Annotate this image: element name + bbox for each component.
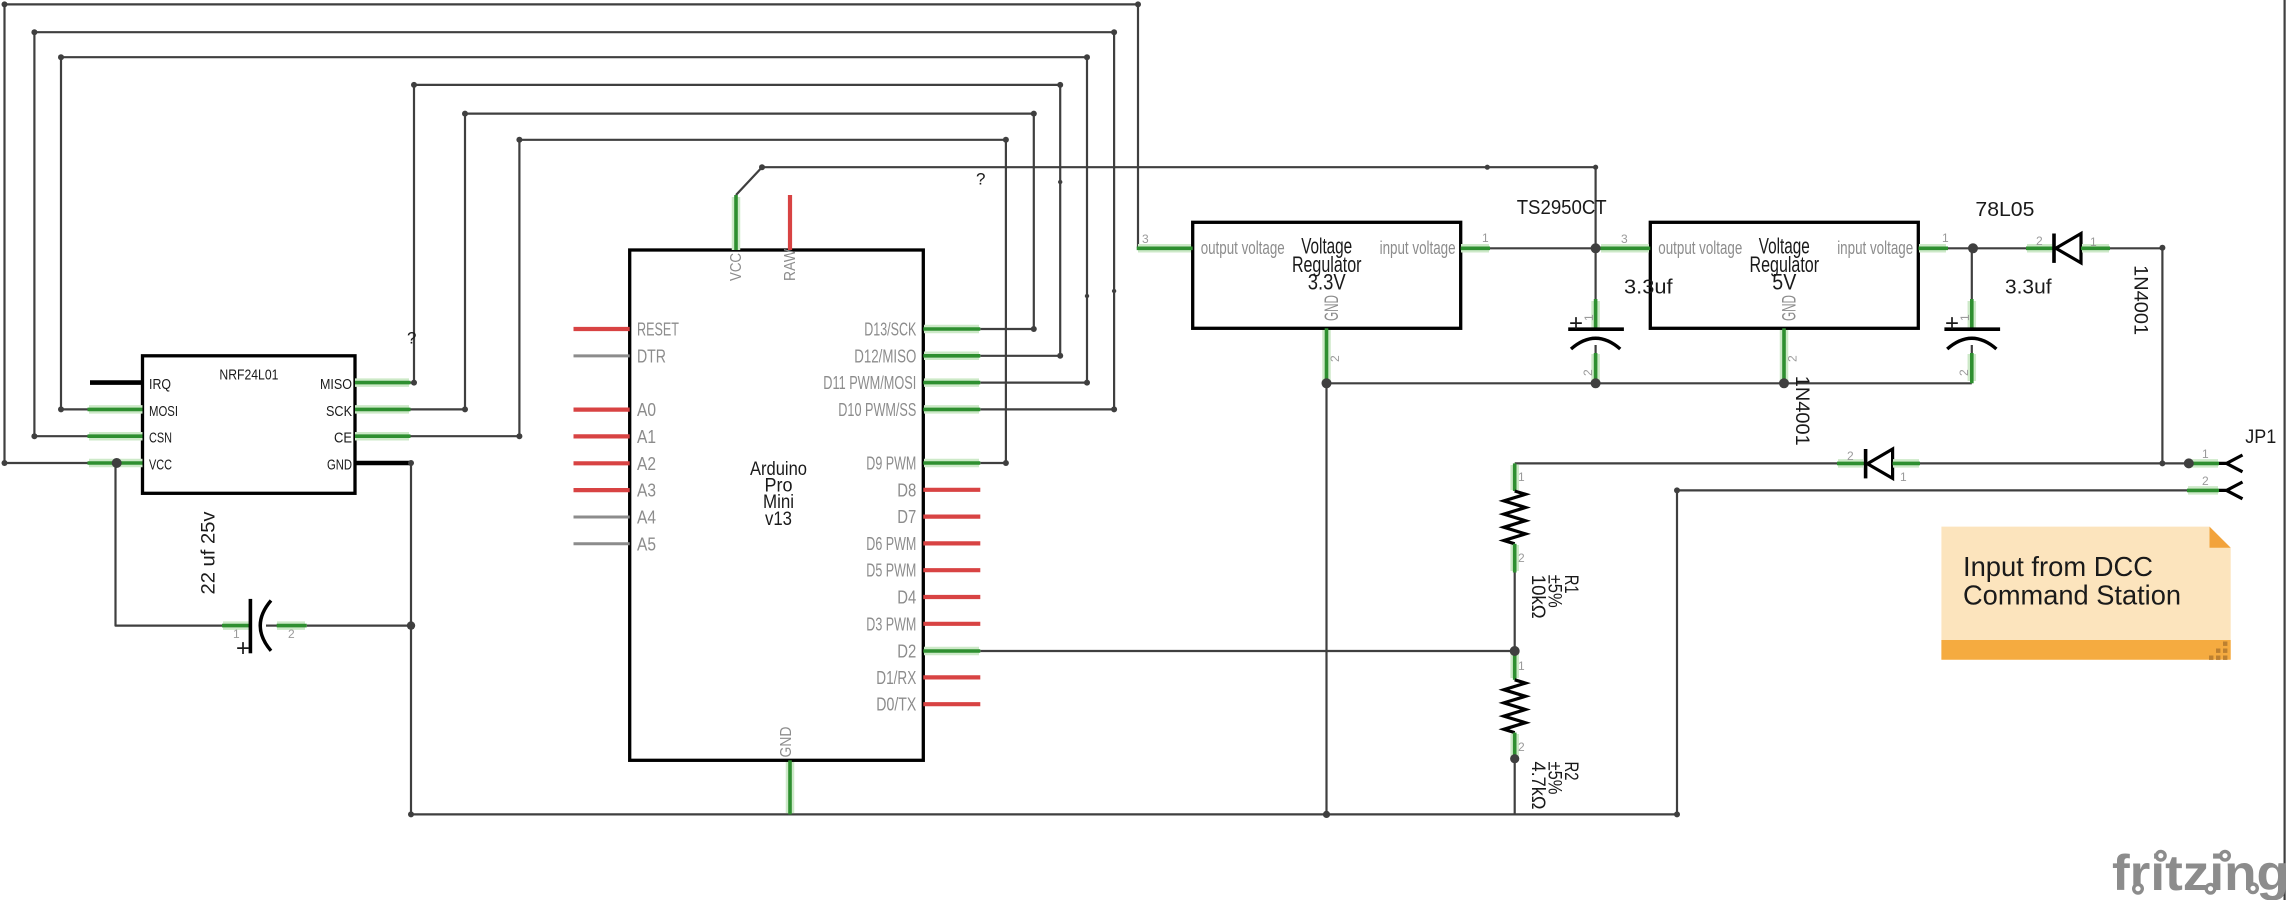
NRF24L01 pin GND (black stub)	[327, 457, 411, 474]
svg-text:1: 1	[233, 627, 240, 641]
svg-text:2: 2	[1328, 355, 1342, 362]
label C1 value 22 uf 25v (rotated)	[198, 511, 220, 594]
svg-text:1: 1	[1482, 231, 1489, 245]
Arduino pin RAW (top, unconnected)	[782, 195, 799, 281]
wire net SCK loop: NRF24L01 SCK to Arduino D13/SCK	[411, 114, 1034, 410]
wire net VCC loop: NRF24L01 VCC to 3.3V regulator output	[5, 4, 1139, 463]
wire net MOSI loop: NRF24L01 MOSI to Arduino D11 PWM/MOSI	[61, 57, 1087, 409]
wire node down to C3	[1971, 248, 1973, 301]
Arduino pin GND (bottom)	[778, 727, 795, 815]
svg-text:D8: D8	[897, 479, 916, 500]
svg-text:Input from DCC: Input from DCC	[1963, 551, 2153, 582]
svg-text:GND: GND	[1780, 295, 1801, 321]
svg-text:2: 2	[288, 627, 295, 641]
svg-text:JP1: JP1	[2245, 426, 2276, 448]
resistor R2 4.7k	[1504, 651, 1526, 759]
wire net CE loop: NRF24L01 CE to Arduino D9 PWM	[411, 140, 1006, 463]
VR1 pin 1 input voltage stub	[1461, 231, 1490, 248]
svg-text:A2: A2	[637, 453, 656, 474]
wire R1 top row to diode D2 and JP1 pin1	[1515, 462, 2189, 464]
diode D2 1N4001 (lower)	[1837, 449, 1920, 484]
junction dot D2/R1/R2 node	[1510, 646, 1520, 656]
svg-text:2: 2	[1847, 449, 1854, 463]
junction dot NRF VCC node	[112, 458, 122, 468]
junction dot GND bus at VR1	[1322, 378, 1332, 388]
svg-text:1: 1	[1518, 659, 1525, 673]
resistor R1 10k	[1504, 463, 1526, 572]
label C3 value 3.3uf	[2005, 277, 2052, 299]
junction dot GND bus at cap C2	[1591, 378, 1601, 388]
svg-text:input voltage: input voltage	[1837, 238, 1913, 258]
Arduino pin D0/TX	[876, 694, 980, 715]
voltage regulator VR2 5V body	[1650, 222, 1918, 328]
svg-text:1: 1	[1582, 314, 1596, 321]
Arduino pin A2	[574, 453, 657, 474]
svg-text:2: 2	[2036, 234, 2043, 248]
Arduino pin D6 PWM	[866, 533, 980, 554]
svg-text:MISO: MISO	[320, 376, 352, 393]
svg-text:D13/SCK: D13/SCK	[864, 319, 916, 340]
svg-text:1: 1	[1958, 314, 1972, 321]
Arduino pin D7	[897, 506, 980, 527]
wire VCC junction down to capacitor C1	[116, 463, 223, 626]
capacitor C1 22uf 25v (horizontal)	[222, 599, 307, 662]
svg-text:?: ?	[407, 329, 416, 348]
svg-text:VCC: VCC	[149, 457, 172, 474]
Arduino Pro Mini U1 body	[630, 250, 924, 760]
svg-text:3.3uf: 3.3uf	[2005, 277, 2052, 299]
svg-text:1N4001: 1N4001	[2129, 265, 2151, 335]
svg-text:v13: v13	[765, 508, 792, 530]
Arduino pin D8	[897, 479, 980, 500]
Arduino pin RESET	[574, 319, 680, 340]
svg-text:D2: D2	[897, 641, 916, 662]
svg-text:2: 2	[1581, 369, 1595, 376]
Arduino pin D1/RX	[876, 667, 980, 688]
svg-text:2: 2	[1518, 740, 1525, 754]
svg-text:A0: A0	[637, 399, 656, 420]
Arduino pin D5 PWM	[866, 560, 980, 581]
NRF24L01 pin MOSI	[88, 403, 179, 420]
Arduino pin D4	[897, 587, 980, 608]
svg-text:output voltage: output voltage	[1658, 238, 1742, 258]
wire node to diode D1 anode	[1973, 247, 2026, 249]
svg-text:1N4001: 1N4001	[1791, 376, 1813, 446]
svg-text:A1: A1	[637, 426, 656, 447]
wire right edge vertical	[2284, 0, 2286, 900]
svg-text:TS2950CT: TS2950CT	[1517, 197, 1607, 219]
svg-text:2: 2	[2202, 474, 2209, 488]
Arduino pin A1	[574, 426, 657, 447]
svg-text:3.3uf: 3.3uf	[1624, 277, 1673, 299]
svg-text:2: 2	[1518, 551, 1525, 565]
wire Arduino D2 to R1/R2 divider	[980, 650, 1514, 652]
label R1 value (rotated): R1 ±5% 10kΩ	[1527, 575, 1582, 619]
wire Arduino VCC to input-voltage node	[736, 167, 1596, 248]
Arduino pin D11 PWM/MOSI	[823, 372, 980, 393]
svg-text:Command Station: Command Station	[1963, 580, 2181, 611]
svg-text:GND: GND	[327, 457, 352, 474]
capacitor C2 3.3uf (left)	[1568, 299, 1624, 383]
svg-text:D9 PWM: D9 PWM	[866, 453, 916, 474]
junction dot JP1 pin1 node	[2184, 458, 2194, 468]
svg-text:MOSI: MOSI	[149, 403, 178, 420]
svg-text:D4: D4	[897, 587, 916, 608]
diode D1 1N4001 (top right)	[2026, 234, 2110, 263]
VR2 pin 2 GND stub	[1784, 328, 1800, 383]
wire diode D1 cathode down to JP1 row	[2110, 248, 2162, 463]
Arduino pin A0	[574, 399, 657, 420]
svg-text:1: 1	[1900, 470, 1907, 484]
junction dot cap C1 to GND wire	[407, 621, 415, 629]
node label ? (MISO wire)	[407, 329, 416, 348]
svg-text:?: ?	[976, 170, 985, 189]
svg-text:D6 PWM: D6 PWM	[866, 533, 916, 554]
label 78L05	[1975, 199, 2034, 221]
svg-text:CE: CE	[334, 430, 352, 447]
NRF24L01 pin CSN	[88, 430, 173, 447]
wire NRF24L01 GND down and bottom ground bus to JP1 pin2	[411, 463, 2188, 814]
VR2 pin 3 output voltage stub	[1600, 232, 1650, 248]
Arduino pin D12/MISO	[854, 345, 980, 366]
sticky note: Input from DCC Command Station	[1941, 527, 2230, 660]
svg-text:3: 3	[1142, 232, 1149, 246]
Arduino pin D9 PWM	[866, 453, 980, 474]
wire GND bus of regulators and caps	[1327, 382, 1972, 384]
svg-text:A5: A5	[637, 533, 656, 554]
junction dot node VR2 input / diode D1	[1968, 243, 1978, 253]
svg-text:2: 2	[1957, 369, 1971, 376]
svg-text:SCK: SCK	[326, 403, 352, 420]
svg-text:78L05: 78L05	[1975, 199, 2034, 221]
svg-text:D1/RX: D1/RX	[876, 667, 916, 688]
svg-text:1: 1	[1942, 231, 1949, 245]
svg-text:D7: D7	[897, 506, 916, 527]
svg-text:RESET: RESET	[637, 319, 679, 340]
svg-text:VCC: VCC	[728, 253, 745, 281]
Arduino pin DTR	[574, 345, 667, 366]
wire net MISO loop: NRF24L01 MISO to Arduino D12/MISO	[411, 85, 1061, 383]
svg-text:input voltage: input voltage	[1380, 238, 1456, 258]
svg-text:GND: GND	[778, 727, 795, 758]
Arduino pin D3 PWM	[866, 613, 980, 634]
svg-text:GND: GND	[1322, 295, 1343, 321]
svg-text:A4: A4	[637, 507, 656, 528]
NRF24L01 module U2 body	[143, 356, 356, 494]
Arduino pin A5	[574, 533, 657, 554]
wire capacitor C1 to GND line	[307, 624, 411, 626]
svg-text:3: 3	[1621, 232, 1628, 246]
junction dot GND bus at VR2	[1779, 378, 1789, 388]
connector JP1 pin 2 fork	[2187, 474, 2243, 499]
svg-text:DTR: DTR	[637, 345, 666, 366]
Arduino pin A4	[574, 507, 657, 528]
svg-text:A3: A3	[637, 480, 656, 501]
junction dot node input-voltage / cap C2	[1591, 243, 1601, 253]
fritzing watermark logo	[2112, 845, 2286, 900]
wire R2 bottom to ground bus	[1514, 759, 1516, 814]
label C2 value 3.3uf	[1624, 277, 1673, 299]
node label ? (VCC wire)	[976, 170, 985, 189]
capacitor C3 3.3uf (right)	[1944, 299, 2000, 383]
label D1 value 1N4001 (rotated)	[2129, 265, 2151, 335]
svg-text:D11 PWM/MOSI: D11 PWM/MOSI	[823, 372, 916, 393]
wire node down to C2	[1594, 248, 1596, 301]
svg-text:22 uf 25v: 22 uf 25v	[198, 511, 220, 594]
label JP1	[2245, 426, 2276, 448]
wire R1 bottom to junction	[1514, 573, 1516, 652]
svg-text:1: 1	[2090, 235, 2097, 249]
svg-text:D12/MISO: D12/MISO	[854, 345, 916, 366]
Arduino pin A3	[574, 480, 657, 501]
svg-text:+: +	[1945, 310, 1959, 337]
wire 3.3V regulator input to node	[1490, 247, 1596, 249]
NRF24L01 pin SCK	[326, 403, 411, 420]
NRF24L01 pin MISO	[320, 376, 411, 393]
wire net CSN loop: NRF24L01 CSN to Arduino D10 PWM/SS	[34, 32, 1114, 436]
wire 3.3V regulator GND down to bottom ground	[1325, 383, 1327, 814]
wire VR2 input pin to node	[1948, 247, 1973, 249]
Arduino pin D13/SCK	[864, 319, 980, 340]
svg-text:D5 PWM: D5 PWM	[866, 560, 916, 581]
svg-text:CSN: CSN	[149, 430, 172, 447]
Arduino pin D2	[897, 641, 980, 662]
svg-text:D10 PWM/SS: D10 PWM/SS	[838, 399, 916, 420]
VR1 pin 3 output voltage stub	[1137, 232, 1193, 248]
svg-text:3.3V: 3.3V	[1308, 270, 1346, 295]
svg-text:+: +	[1569, 310, 1583, 337]
svg-text:IRQ: IRQ	[149, 376, 171, 393]
connector JP1 pin 1 fork	[2189, 447, 2243, 472]
VR2 pin 1 input voltage stub	[1919, 231, 1950, 248]
svg-text:NRF24L01: NRF24L01	[219, 366, 278, 383]
label R2 value (rotated): R2 ±5% 4.7kΩ	[1527, 762, 1582, 810]
svg-text:2: 2	[1786, 355, 1800, 362]
svg-text:output voltage: output voltage	[1201, 238, 1285, 258]
voltage regulator VR1 3.3V body	[1193, 222, 1461, 328]
NRF24L01 pin IRQ (unconnected stub)	[90, 376, 171, 393]
label TS2950CT	[1517, 197, 1607, 219]
VR1 pin 2 GND stub	[1327, 328, 1343, 383]
svg-text:1: 1	[2202, 447, 2209, 461]
Arduino pin D10 PWM/SS	[838, 399, 980, 420]
NRF24L01 pin VCC	[88, 457, 173, 474]
svg-text:1: 1	[1518, 470, 1525, 484]
svg-text:D0/TX: D0/TX	[876, 694, 916, 715]
svg-text:D3 PWM: D3 PWM	[866, 613, 916, 634]
svg-text:RAW: RAW	[782, 248, 799, 281]
label D2 value 1N4001 (rotated)	[1791, 376, 1813, 446]
NRF24L01 pin CE	[334, 430, 411, 447]
Arduino pin VCC (top)	[728, 195, 745, 281]
svg-text:5V: 5V	[1772, 270, 1796, 295]
